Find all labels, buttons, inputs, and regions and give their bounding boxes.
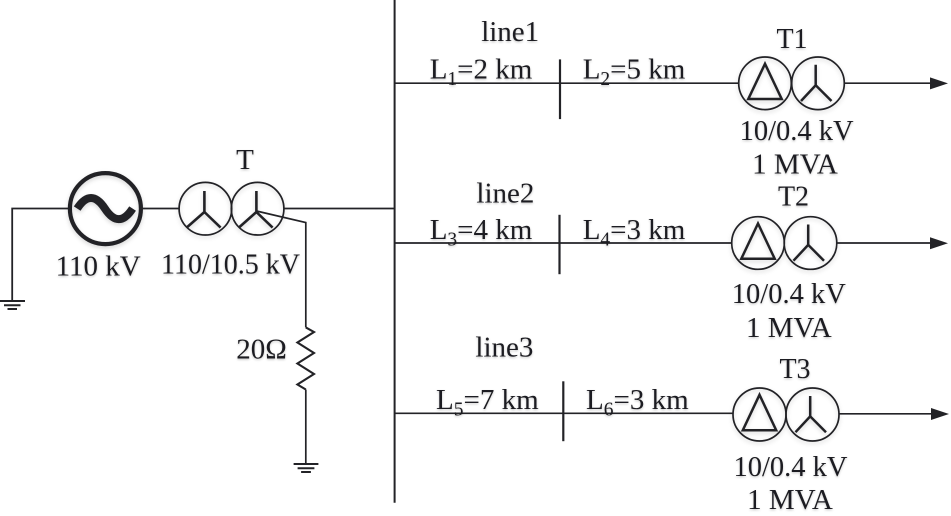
busbar (10.5 kV bus) xyxy=(394,0,396,503)
svg-text:110 kV: 110 kV xyxy=(56,251,141,283)
svg-text:L2=5 km: L2=5 km xyxy=(583,54,686,91)
ground (left, source neutral) xyxy=(0,301,25,309)
svg-text:L3=4 km: L3=4 km xyxy=(430,214,533,251)
arrow head line1 xyxy=(930,77,948,89)
transformer T2 (delta-wye) xyxy=(732,217,837,270)
svg-text:line3: line3 xyxy=(475,332,533,364)
wire: transformer T to busbar xyxy=(284,208,395,210)
junction tick line1 xyxy=(559,59,561,119)
svg-text:T: T xyxy=(236,144,254,176)
svg-text:T2: T2 xyxy=(778,182,809,213)
svg-text:L4=3 km: L4=3 km xyxy=(583,214,686,251)
wire: left ground up to main node xyxy=(12,209,68,302)
wire: line2 segment L4 xyxy=(560,242,732,244)
svg-text:1 MVA: 1 MVA xyxy=(752,149,838,181)
svg-text:10/0.4 kV: 10/0.4 kV xyxy=(732,279,846,310)
wire: T3 to load arrow xyxy=(839,413,932,415)
wire: T neutral to resistor (diagonal + vertical) xyxy=(256,211,305,327)
ground (below resistor) xyxy=(294,464,319,472)
svg-text:line1: line1 xyxy=(481,16,539,48)
wire: source to transformer T xyxy=(141,208,180,210)
arrow head line3 xyxy=(931,408,949,420)
junction tick line2 xyxy=(558,215,560,274)
transformer T1 (delta-wye) xyxy=(739,57,845,110)
svg-text:L6=3 km: L6=3 km xyxy=(586,384,689,421)
svg-text:110/10.5 kV: 110/10.5 kV xyxy=(161,250,300,281)
wire: line3 segment L5 xyxy=(395,412,564,414)
transformer T3 (delta-wye) xyxy=(733,388,839,441)
svg-text:1 MVA: 1 MVA xyxy=(746,312,832,344)
wire: T1 to load arrow xyxy=(844,82,931,84)
svg-text:10/0.4 kV: 10/0.4 kV xyxy=(734,452,848,483)
svg-text:T3: T3 xyxy=(779,354,810,385)
wire: line2 segment L3 xyxy=(395,242,560,244)
svg-text:20Ω: 20Ω xyxy=(236,334,287,366)
wire: line3 segment L6 xyxy=(564,412,733,414)
junction tick line3 xyxy=(562,381,564,441)
svg-text:1 MVA: 1 MVA xyxy=(747,484,833,516)
svg-text:T1: T1 xyxy=(776,24,807,55)
arrow head line2 xyxy=(930,237,948,249)
AC source 110 kV xyxy=(70,173,141,244)
wire: line1 segment L2 xyxy=(560,82,739,84)
wire: T2 to load arrow xyxy=(837,242,931,244)
svg-text:L5=7 km: L5=7 km xyxy=(436,384,539,421)
transformer T (110/10.5 kV wye-wye) xyxy=(179,182,284,235)
wire: resistor to ground xyxy=(305,390,307,465)
svg-text:10/0.4 kV: 10/0.4 kV xyxy=(740,116,854,147)
wire: line1 segment L1 xyxy=(395,82,560,84)
svg-text:line2: line2 xyxy=(476,178,534,210)
resistor 20 ohm (zigzag) xyxy=(297,327,314,389)
svg-text:L1=2 km: L1=2 km xyxy=(430,54,533,91)
